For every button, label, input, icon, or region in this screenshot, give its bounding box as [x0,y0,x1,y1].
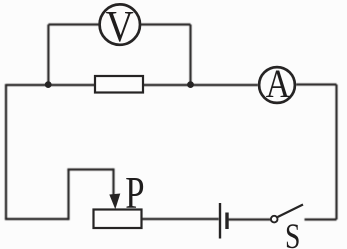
wire left vertical [5,84,7,219]
wire wiper arrow shaft [112,168,114,198]
wire resistor to ammeter [143,84,258,86]
wire bottom-right horizontal [305,218,337,220]
wire rheostat to battery [142,218,219,220]
junction node left [45,81,52,88]
wire voltmeter right vertical [189,25,191,86]
svg-text:V: V [106,2,134,51]
wire bottom-left horizontal [5,218,69,220]
wire rheostat step horizontal [67,168,113,170]
svg-text:A: A [266,61,290,106]
svg-text:S: S [285,216,300,249]
svg-text:P: P [125,167,144,218]
wire right vertical [335,85,337,220]
voltmeter U1 circle [100,4,140,44]
wire main top horizontal left [6,84,95,86]
switch S blade [278,205,303,218]
wire voltmeter left vertical [47,25,49,86]
battery long plate [219,203,221,239]
rheostat P (bottom box) [94,210,142,229]
wire voltmeter left horizontal [48,23,99,25]
switch S pivot circle [271,216,278,223]
wire battery to switch [228,218,271,220]
junction node right [187,81,194,88]
wire rheostat step vertical [67,170,69,221]
resistor R (top box) [95,76,143,93]
wire ammeter right [296,83,337,85]
wiper arrowhead [109,194,120,210]
wire voltmeter right horizontal [141,23,191,25]
ammeter U2 circle [259,67,295,103]
battery short plate [225,213,228,230]
